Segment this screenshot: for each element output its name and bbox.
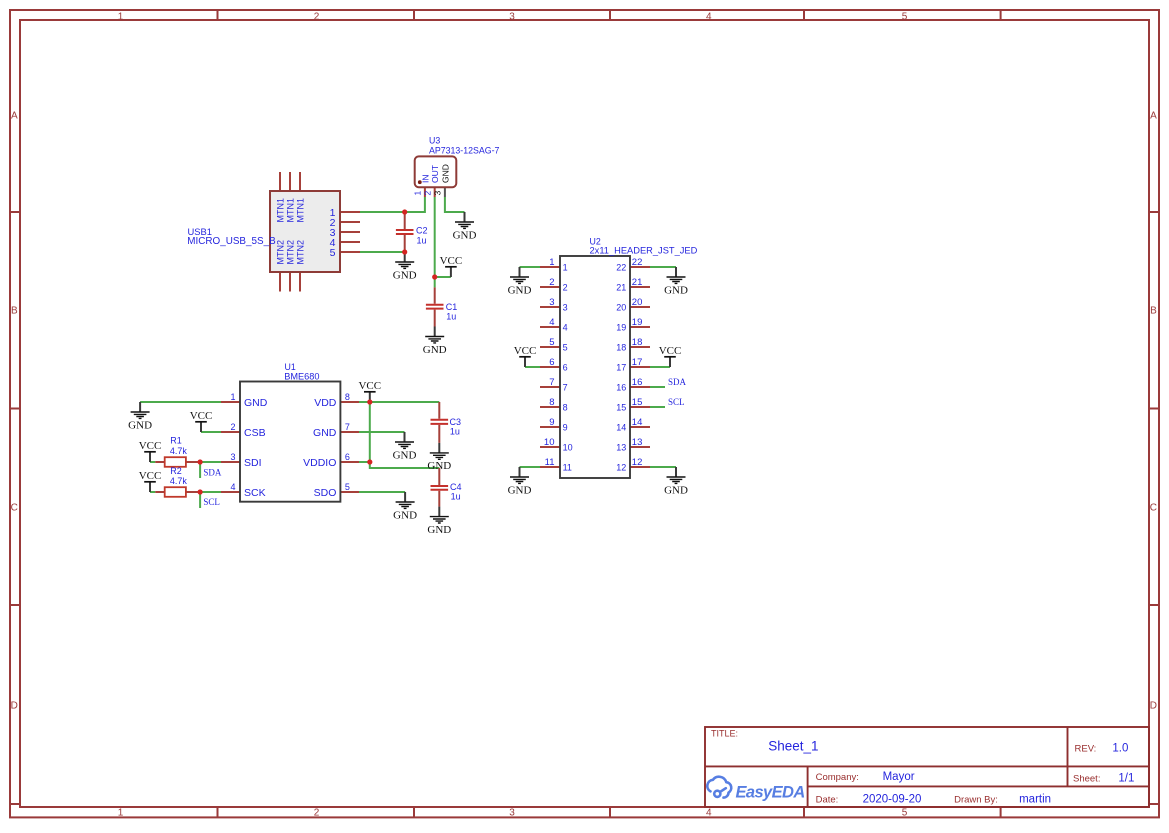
svg-text:CSB: CSB: [244, 427, 266, 439]
svg-text:17: 17: [616, 363, 626, 373]
svg-text:11: 11: [563, 463, 572, 473]
svg-text:12: 12: [616, 463, 626, 473]
svg-text:A: A: [1150, 111, 1157, 122]
svg-text:SDA: SDA: [668, 377, 687, 387]
svg-text:2x11_HEADER_JST_JED: 2x11_HEADER_JST_JED: [590, 246, 698, 256]
svg-text:MTN1: MTN1: [296, 198, 306, 223]
svg-text:5: 5: [902, 11, 908, 22]
svg-text:2: 2: [314, 808, 320, 819]
svg-text:2: 2: [423, 191, 433, 196]
svg-text:SCK: SCK: [244, 487, 266, 499]
svg-text:22: 22: [616, 263, 626, 273]
svg-text:16: 16: [632, 377, 643, 388]
svg-text:C3: C3: [450, 417, 462, 427]
svg-text:C4: C4: [450, 482, 462, 492]
svg-text:1: 1: [549, 257, 554, 268]
svg-text:19: 19: [632, 317, 643, 328]
svg-text:D: D: [1150, 701, 1157, 712]
svg-text:SDI: SDI: [244, 457, 262, 469]
svg-text:C: C: [11, 503, 18, 514]
svg-text:C1: C1: [446, 302, 458, 312]
svg-text:15: 15: [616, 403, 626, 413]
svg-text:2: 2: [549, 277, 554, 288]
svg-text:20: 20: [616, 303, 626, 313]
svg-text:5: 5: [549, 337, 554, 348]
svg-text:Date:: Date:: [816, 795, 839, 806]
svg-text:19: 19: [616, 323, 626, 333]
svg-text:13: 13: [632, 437, 643, 448]
svg-text:5: 5: [563, 343, 568, 353]
svg-text:SDO: SDO: [314, 487, 337, 499]
svg-text:C: C: [1150, 503, 1157, 514]
svg-text:7: 7: [549, 377, 554, 388]
svg-text:7: 7: [563, 383, 568, 393]
svg-text:3: 3: [509, 808, 515, 819]
svg-text:Drawn By:: Drawn By:: [954, 795, 998, 806]
svg-text:3: 3: [509, 11, 515, 22]
svg-text:Mayor: Mayor: [883, 771, 915, 783]
svg-text:12: 12: [632, 457, 643, 468]
svg-text:15: 15: [632, 397, 643, 408]
svg-text:MTN2: MTN2: [276, 240, 286, 265]
svg-text:R2: R2: [170, 466, 182, 476]
svg-text:C2: C2: [416, 226, 428, 236]
svg-text:6: 6: [549, 357, 554, 368]
svg-text:4: 4: [706, 808, 712, 819]
svg-text:3: 3: [230, 452, 235, 462]
svg-text:13: 13: [616, 443, 626, 453]
svg-text:21: 21: [632, 277, 643, 288]
svg-text:16: 16: [616, 383, 626, 393]
svg-text:1: 1: [230, 392, 235, 402]
svg-text:1u: 1u: [451, 491, 461, 501]
svg-text:U3: U3: [429, 136, 440, 146]
svg-text:4: 4: [706, 11, 712, 22]
svg-text:OUT: OUT: [430, 165, 440, 183]
svg-text:4: 4: [549, 317, 554, 328]
svg-text:BME680: BME680: [284, 371, 319, 381]
svg-text:20: 20: [632, 297, 643, 308]
svg-text:1u: 1u: [417, 235, 427, 245]
svg-text:1: 1: [413, 191, 423, 196]
svg-text:9: 9: [549, 417, 554, 428]
svg-text:5: 5: [902, 808, 908, 819]
svg-text:MTN2: MTN2: [296, 240, 306, 265]
svg-text:3: 3: [549, 297, 554, 308]
svg-text:7: 7: [345, 422, 350, 432]
svg-text:10: 10: [563, 443, 573, 453]
svg-text:GND: GND: [313, 427, 337, 439]
svg-text:18: 18: [632, 337, 643, 348]
svg-text:2: 2: [314, 11, 320, 22]
svg-text:Sheet_1: Sheet_1: [768, 738, 818, 753]
svg-text:D: D: [11, 701, 18, 712]
svg-text:MTN2: MTN2: [286, 240, 296, 265]
svg-text:6: 6: [345, 452, 350, 462]
svg-text:SCL: SCL: [203, 497, 220, 507]
svg-text:SDA: SDA: [203, 467, 222, 477]
svg-text:GND: GND: [440, 164, 450, 183]
svg-text:22: 22: [632, 257, 643, 268]
svg-text:5: 5: [345, 482, 350, 492]
svg-text:3: 3: [563, 303, 568, 313]
svg-text:IN: IN: [420, 175, 430, 184]
svg-text:SCL: SCL: [668, 397, 685, 407]
svg-text:VDD: VDD: [314, 397, 337, 409]
svg-text:B: B: [11, 306, 18, 317]
svg-text:1.0: 1.0: [1112, 743, 1128, 755]
svg-text:MTN1: MTN1: [286, 198, 296, 223]
svg-text:21: 21: [616, 283, 626, 293]
svg-text:EasyEDA: EasyEDA: [736, 784, 805, 802]
svg-text:2: 2: [563, 283, 568, 293]
svg-text:4.7k: 4.7k: [170, 446, 188, 456]
svg-text:1u: 1u: [450, 427, 460, 437]
svg-text:VDDIO: VDDIO: [303, 457, 336, 469]
svg-text:TITLE:: TITLE:: [711, 729, 738, 739]
svg-text:2: 2: [230, 422, 235, 432]
svg-text:B: B: [1150, 306, 1157, 317]
svg-text:8: 8: [563, 403, 568, 413]
svg-text:8: 8: [549, 397, 554, 408]
svg-text:AP7313-12SAG-7: AP7313-12SAG-7: [429, 146, 500, 156]
svg-text:A: A: [11, 111, 18, 122]
svg-text:Company:: Company:: [816, 772, 859, 783]
svg-text:martin: martin: [1019, 794, 1051, 806]
svg-text:R1: R1: [170, 436, 182, 446]
svg-text:8: 8: [345, 392, 350, 402]
svg-text:18: 18: [616, 343, 626, 353]
svg-text:6: 6: [563, 363, 568, 373]
svg-text:1u: 1u: [446, 312, 456, 322]
svg-text:REV:: REV:: [1075, 744, 1097, 755]
svg-text:10: 10: [544, 437, 555, 448]
svg-text:4: 4: [230, 482, 235, 492]
svg-text:3: 3: [433, 191, 443, 196]
svg-text:1: 1: [118, 11, 124, 22]
svg-text:1/1: 1/1: [1118, 773, 1134, 785]
svg-text:1: 1: [118, 808, 124, 819]
svg-text:17: 17: [632, 357, 643, 368]
svg-text:MICRO_USB_5S_B: MICRO_USB_5S_B: [187, 236, 276, 247]
svg-text:14: 14: [632, 417, 643, 428]
svg-text:MTN1: MTN1: [276, 198, 286, 223]
svg-text:Sheet:: Sheet:: [1073, 774, 1100, 785]
svg-text:11: 11: [545, 457, 555, 468]
svg-text:1: 1: [563, 263, 568, 273]
svg-text:9: 9: [563, 423, 568, 433]
svg-text:2020-09-20: 2020-09-20: [863, 794, 922, 806]
svg-text:5: 5: [330, 247, 336, 259]
svg-text:4.7k: 4.7k: [170, 476, 188, 486]
svg-text:4: 4: [563, 323, 568, 333]
svg-text:GND: GND: [244, 397, 268, 409]
svg-text:14: 14: [616, 423, 626, 433]
